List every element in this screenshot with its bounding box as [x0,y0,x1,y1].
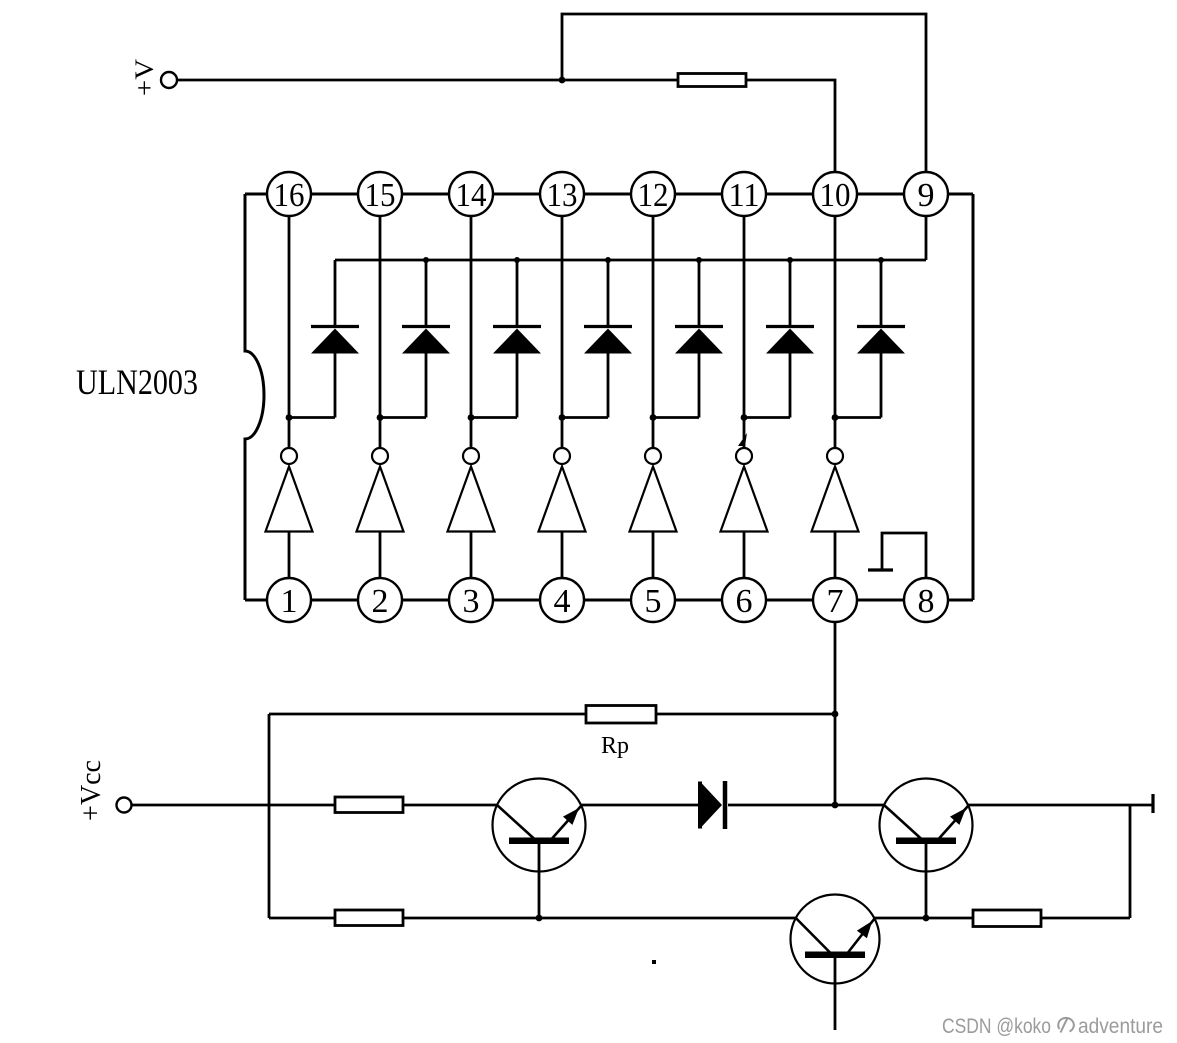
svg-text:CSDN @koko: CSDN @koko [942,1015,1051,1038]
IC body right edge [972,194,975,600]
inverter stage 6 (bubble, triangle, lead to pin 6) [721,448,768,578]
pin 13 [540,172,584,216]
wire: output riser from pin 13 down to inverter 4 [561,216,564,448]
svg-text:+Vcc: +Vcc [76,760,107,821]
wire: top resistor to pin 10 [746,80,835,172]
junction dot: diode D5 on bus [696,257,702,263]
svg-text:16: 16 [274,177,305,214]
wire: bottom rail left segment [269,917,335,920]
pin 10 [813,172,857,216]
resistor R1 (top, in series to pin 10) [678,74,746,87]
wire: Q3 emitter to Q2 base node [873,917,973,920]
junction dot: diode D4 anode on pin 13 riser [559,414,566,421]
svg-text:7: 7 [827,583,844,620]
wire: R3 to transistor Q3 [403,917,797,920]
stray ink dot [652,960,656,964]
junction dot: diode D2 on bus [423,257,429,263]
wire: output riser up to terminal wire [1129,805,1132,918]
wire: left rail to base resistor [269,804,335,807]
wire: Q2 emitter to output terminal [968,804,1153,807]
svg-text:13: 13 [547,177,578,214]
junction dot: diode D4 on bus [605,257,611,263]
clamp diode D6 (cathode to bus, anode to pin 11 riser) [744,260,814,418]
svg-text:6: 6 [736,583,753,620]
clamp diode D2 (cathode to bus, anode to pin 15 riser) [380,260,450,418]
svg-text:+V: +V [130,59,159,96]
wire: R4 to output riser [1041,917,1130,920]
junction dot where +V rail splits to top loop [559,77,566,84]
transistor Q3 [791,895,880,1031]
svg-text:9: 9 [918,177,935,214]
junction dot: diode D6 on bus [787,257,793,263]
pin 8 [904,578,948,622]
ground bar of pin 8 hook [868,568,893,571]
wire: output riser from pin 15 down to inverter 2 [379,216,382,448]
small stray arrow mark above inverter 6 bubble [738,433,747,446]
+V terminal circle [161,72,177,88]
inverter stage 2 (bubble, triangle, lead to pin 2) [357,448,404,578]
watermark CSDN @koko-no-adventure [942,1015,1163,1038]
inverter stage 7 (bubble, triangle, lead to pin 7) [812,448,859,578]
wire: feedback branch to resistor Rp [269,713,586,716]
inverter stage 4 (bubble, triangle, lead to pin 4) [539,448,586,578]
inverter stage 3 (bubble, triangle, lead to pin 3) [448,448,495,578]
pin 12 [631,172,675,216]
wire: top loop from +V rail over to pin 9 [562,14,926,172]
junction dot: diode D2 anode on pin 15 riser [377,414,384,421]
junction dot: diode D3 on bus [514,257,520,263]
transistor Q1 [493,779,586,919]
svg-text:14: 14 [456,177,487,214]
IC bottom edge wire segments between pins [245,599,973,602]
clamp diode D5 (cathode to bus, anode to pin 12 riser) [653,260,723,418]
junction dot: diode D6 anode on pin 11 riser [741,414,748,421]
wire: pin 7 down to driver node [834,622,837,805]
pin 11 [722,172,766,216]
pin 3 [449,578,493,622]
pin 8 internal common/ground hook wire [882,533,926,578]
resistor R4 (bottom right) [973,910,1041,927]
inverter stage 1 (bubble, triangle, lead to pin 1) [266,448,313,578]
common-cathode bus wire [335,259,926,262]
junction dot: Rp feedback joins pin 7 wire [832,711,839,718]
junction dot: diode D3 anode on pin 14 riser [468,414,475,421]
wire: +V terminal to top resistor [177,79,678,82]
junction dot: Q2 base on bottom rail [923,915,930,922]
svg-text:4: 4 [554,583,571,620]
IC top edge wire segments between pins [245,193,973,196]
junction dot: diode D7 anode on pin 10 riser [832,414,839,421]
svg-text:Rp: Rp [601,733,629,759]
wire: output riser from pin 10 down to inverter 7 [834,216,837,448]
transistor Q2 [880,779,973,919]
pin 6 [722,578,766,622]
svg-text:adventure: adventure [1078,1015,1163,1038]
junction dot: diode D7 on bus [878,257,884,263]
wire: output riser from pin 12 down to inverter 5 [652,216,655,448]
pin 4 [540,578,584,622]
pin 5 [631,578,675,622]
inverter stage 5 (bubble, triangle, lead to pin 5) [630,448,677,578]
pin 16 [267,172,311,216]
wire: Rp to pin 7 node [656,713,835,716]
wire: output riser from pin 16 down to inverter 1 [288,216,291,448]
pin 2 [358,578,402,622]
svg-text:1: 1 [281,583,298,620]
wire: D8 cathode to pin 7 node and on to Q2 [728,804,884,807]
pin 9 [904,172,948,216]
resistor Rp [586,706,656,724]
wire: Q1 emitter to diode D8 [580,804,699,807]
resistor R3 (bottom left) [335,910,403,926]
wire: +Vcc terminal to left rail [132,804,270,807]
IC body left edge with index notch [245,194,264,600]
svg-text:11: 11 [729,177,760,214]
junction dot: diode D5 anode on pin 12 riser [650,414,657,421]
clamp diode D4 (cathode to bus, anode to pin 13 riser) [562,260,632,418]
base resistor R2 of Q1 [335,797,403,813]
svg-text:10: 10 [820,177,851,214]
wire: output riser from pin 11 down to inverter 6 [743,216,746,448]
wire: R2 to transistor Q1 [403,804,498,807]
svg-text:15: 15 [365,177,396,214]
pin 7 [813,578,857,622]
junction dot: pin 7 wire joins signal rail [832,802,839,809]
svg-text:5: 5 [645,583,662,620]
svg-text:12: 12 [638,177,669,214]
pin 15 [358,172,402,216]
wire: pin 9 riser down to bus [925,216,928,260]
junction dot: diode D1 anode on pin 16 riser [286,414,293,421]
+Vcc terminal circle [117,798,132,813]
output terminal bar [1151,794,1154,813]
svg-text:8: 8 [918,583,935,620]
pin 1 [267,578,311,622]
wire: output riser from pin 14 down to inverter 3 [470,216,473,448]
junction dot: Q1 base on bottom rail [536,915,543,922]
pin 14 [449,172,493,216]
svg-text:3: 3 [463,583,480,620]
svg-text:2: 2 [372,583,389,620]
svg-text:ULN2003: ULN2003 [76,362,198,402]
diode D8 (series diode) [700,781,725,829]
wire: left rail vertical [268,714,271,918]
clamp diode D1 (cathode to bus, anode to pin 16 riser) [289,260,359,418]
clamp diode D3 (cathode to bus, anode to pin 14 riser) [471,260,541,418]
clamp diode D7 (cathode to bus, anode to pin 10 riser) [835,260,905,418]
